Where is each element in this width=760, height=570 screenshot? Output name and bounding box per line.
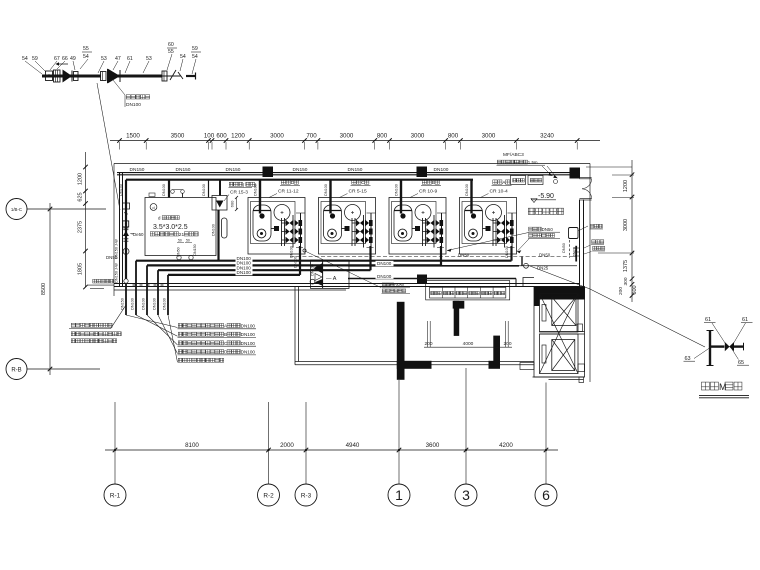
- svg-text:-5.90: -5.90: [538, 193, 554, 200]
- svg-text:3500: 3500: [171, 133, 185, 140]
- svg-text:R-3: R-3: [301, 493, 312, 500]
- svg-text:DN100: DN100: [434, 167, 449, 173]
- svg-text:DN20: DN20: [573, 247, 577, 257]
- svg-text:A: A: [224, 324, 228, 329]
- svg-text:50: 50: [178, 239, 182, 243]
- svg-text:800: 800: [377, 133, 388, 140]
- svg-text:3.5*3.0*2.5: 3.5*3.0*2.5: [153, 224, 188, 231]
- svg-text:55: 55: [168, 49, 174, 55]
- svg-text:C: C: [224, 341, 228, 346]
- svg-text:DN50: DN50: [458, 252, 470, 257]
- svg-text:DN100: DN100: [465, 184, 469, 196]
- svg-text:21: 21: [179, 232, 185, 238]
- svg-text:DN100: DN100: [395, 184, 399, 196]
- svg-text:DN100: DN100: [241, 350, 256, 355]
- svg-text:DN100: DN100: [237, 270, 252, 275]
- svg-text:M: M: [719, 382, 727, 392]
- svg-text:61: 61: [705, 317, 711, 323]
- svg-text:625: 625: [78, 192, 84, 201]
- svg-text:61: 61: [742, 317, 748, 323]
- svg-text:4200: 4200: [499, 442, 513, 449]
- svg-text:D: D: [224, 350, 228, 355]
- svg-text:1375: 1375: [623, 260, 629, 272]
- svg-text:DN150 J-W: DN150 J-W: [115, 263, 119, 283]
- svg-text:8500: 8500: [41, 283, 47, 295]
- svg-text:CR 10-9: CR 10-9: [419, 189, 437, 195]
- svg-text:DN100: DN100: [126, 102, 141, 108]
- svg-text:600: 600: [632, 285, 638, 294]
- svg-text:3000: 3000: [340, 133, 354, 140]
- svg-text:4940: 4940: [346, 442, 360, 449]
- svg-text:DN100: DN100: [241, 324, 256, 329]
- svg-text:d: d: [158, 216, 161, 221]
- svg-text:2000: 2000: [280, 442, 294, 449]
- svg-text:R-2: R-2: [263, 493, 274, 500]
- svg-text:R-B: R-B: [11, 368, 21, 374]
- svg-text:50: 50: [186, 239, 190, 243]
- svg-text:1.5m: 1.5m: [528, 160, 538, 165]
- svg-text:-De50: -De50: [132, 232, 145, 237]
- svg-text:1805: 1805: [78, 263, 84, 275]
- svg-text:— A: — A: [326, 276, 337, 282]
- svg-text:200: 200: [618, 287, 624, 295]
- svg-text:100: 100: [204, 133, 215, 140]
- svg-text:8100: 8100: [185, 442, 199, 449]
- svg-text:1200: 1200: [231, 133, 245, 140]
- svg-text:DN100: DN100: [131, 298, 135, 310]
- svg-text:B: B: [224, 332, 227, 337]
- svg-text:MF/ABC3: MF/ABC3: [503, 152, 524, 158]
- svg-text:60: 60: [168, 42, 174, 48]
- svg-text:300: 300: [623, 277, 629, 285]
- svg-text:DN100: DN100: [212, 224, 216, 236]
- svg-text:4000: 4000: [463, 341, 474, 347]
- svg-text:1: 1: [395, 487, 403, 503]
- svg-text:R-1: R-1: [110, 493, 121, 500]
- svg-text:55: 55: [83, 46, 89, 52]
- svg-text:DN50: DN50: [562, 243, 566, 253]
- svg-text:DN100: DN100: [241, 341, 256, 346]
- svg-text:DN100: DN100: [311, 264, 315, 276]
- svg-text:DN150: DN150: [348, 167, 363, 173]
- svg-text:DN150: DN150: [130, 167, 145, 173]
- svg-text:3000: 3000: [623, 219, 629, 231]
- svg-text:DN100: DN100: [163, 298, 167, 310]
- svg-text:DN100: DN100: [162, 184, 166, 196]
- svg-text:DN100: DN100: [241, 332, 256, 337]
- svg-text:DN150: DN150: [293, 167, 308, 173]
- svg-text:DN150: DN150: [226, 167, 241, 173]
- svg-text:DN100: DN100: [377, 261, 392, 266]
- svg-text:d: d: [152, 205, 154, 210]
- svg-text:54: 54: [192, 54, 198, 60]
- svg-text:DN100: DN100: [290, 246, 294, 258]
- svg-text:CR 10-4: CR 10-4: [490, 189, 508, 195]
- svg-text:3: 3: [462, 487, 470, 503]
- svg-text:6: 6: [542, 487, 550, 503]
- svg-text:1200: 1200: [78, 173, 84, 185]
- svg-text:DN100: DN100: [377, 274, 392, 279]
- svg-text:DN50: DN50: [542, 227, 554, 232]
- svg-text:CR 5-15: CR 5-15: [349, 189, 367, 195]
- svg-text:1500: 1500: [126, 133, 140, 140]
- svg-text:CR 11-12: CR 11-12: [278, 189, 299, 195]
- svg-text:DN50: DN50: [539, 252, 551, 257]
- svg-text:DN100: DN100: [254, 184, 258, 196]
- svg-text:800: 800: [448, 133, 459, 140]
- svg-text:1/B-C: 1/B-C: [11, 207, 22, 212]
- svg-text:DN100: DN100: [153, 298, 157, 310]
- svg-text:(: (: [243, 182, 245, 187]
- svg-text:3000: 3000: [411, 133, 425, 140]
- svg-text:DN100: DN100: [505, 246, 509, 258]
- svg-text:DN50: DN50: [394, 283, 405, 288]
- svg-text:DN150: DN150: [193, 244, 197, 255]
- svg-text:3000: 3000: [482, 133, 496, 140]
- svg-text:DN100: DN100: [142, 298, 146, 310]
- svg-text:3240: 3240: [540, 133, 554, 140]
- svg-text:600: 600: [216, 133, 227, 140]
- svg-text:3600: 3600: [426, 442, 440, 449]
- svg-text:200: 200: [503, 341, 511, 347]
- svg-text:2375: 2375: [78, 221, 84, 233]
- svg-text:1200: 1200: [623, 180, 629, 192]
- svg-text:3000: 3000: [270, 133, 284, 140]
- svg-text:DN150: DN150: [176, 167, 191, 173]
- svg-text:700: 700: [306, 133, 317, 140]
- svg-text:DN25: DN25: [537, 266, 549, 271]
- svg-text:DN100: DN100: [202, 184, 206, 196]
- svg-text:200: 200: [424, 341, 432, 347]
- svg-text:DN50: DN50: [106, 255, 118, 260]
- svg-text:DN100: DN100: [294, 256, 298, 268]
- svg-text:DN150: DN150: [119, 184, 123, 196]
- svg-text:CR 15-3: CR 15-3: [230, 190, 248, 196]
- svg-text:600: 600: [230, 200, 235, 207]
- svg-text:59: 59: [192, 46, 198, 52]
- svg-text:DN100: DN100: [324, 184, 328, 196]
